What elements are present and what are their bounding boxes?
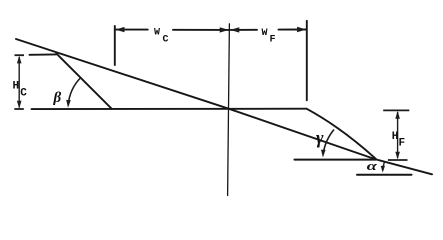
arrowhead alpha [381,166,385,173]
arrowhead H_C down [17,101,22,109]
svg-text:β: β [53,90,62,106]
wire center vertical line [228,24,230,196]
wire W_C left tick [114,26,116,65]
svg-text:C: C [20,88,27,100]
arrowhead beta [66,100,71,108]
wire H_C vertical [18,57,20,108]
svg-text:W: W [262,28,268,39]
wire cut slope face [56,53,111,108]
arrowhead H_F down [395,152,400,160]
wire H_F bottom bar [388,159,408,161]
svg-text:F: F [399,138,406,150]
wire fill slope face [307,109,376,159]
dimension W_C line left segment [116,29,148,31]
svg-text:F: F [270,35,276,46]
arrowhead W_C right [220,27,229,32]
wire H_F top bar [383,109,409,111]
svg-text:α: α [367,159,377,173]
arrowhead W_C left [115,27,124,32]
angle alpha arrow [383,162,385,171]
wire toe reference line [295,159,376,161]
arrowhead H_C up [17,56,22,64]
svg-text:γ: γ [316,128,324,148]
dimension W_F line right segment [279,29,306,31]
arrowhead H_F up [395,111,400,119]
arrowhead W_F right [297,27,306,32]
wire W_F right tick [306,21,308,101]
dimension H_F [383,110,409,160]
wire bench line [32,108,307,110]
wire bottom alpha reference line [357,174,412,176]
dimension H_C [14,55,24,109]
wire H_C top bar [15,54,25,56]
angle beta arc [68,78,81,106]
wire H_F vertical [397,112,399,158]
svg-text:C: C [163,34,169,45]
arrowhead gamma [321,150,326,158]
svg-text:W: W [154,28,160,39]
wire natural ground line [16,39,432,174]
wire H_C bottom bar [14,108,23,110]
svg-text:H: H [392,131,399,143]
svg-text:H: H [13,81,20,93]
dimension W_C line right segment [173,29,229,31]
dimension W_F line left segment [231,29,258,31]
wire crest reference line [30,53,57,55]
angle gamma arc [323,130,334,154]
arrowhead W_F left [230,27,239,32]
